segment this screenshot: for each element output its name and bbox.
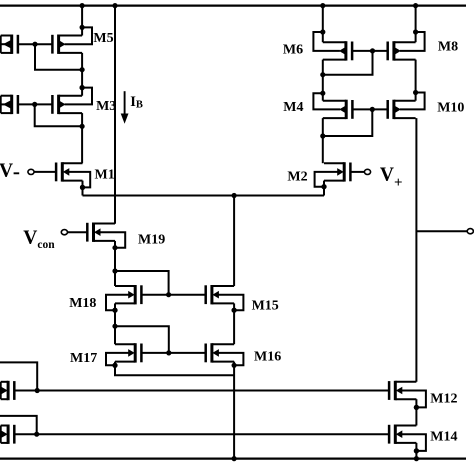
label V- minus <box>14 172 20 174</box>
transistor M1 channel bar <box>61 162 64 181</box>
wire M16 source to ground rail <box>233 362 235 459</box>
wire output tap <box>416 230 468 232</box>
edge transistor P2 source lead <box>1 112 12 114</box>
transistor M3 drain lead <box>59 95 83 97</box>
wire M17 source down-right <box>115 362 234 376</box>
svg-text:M4: M4 <box>283 100 303 115</box>
transistor M6 bulk wire <box>313 32 340 51</box>
svg-text:M15: M15 <box>252 298 279 313</box>
transistor M12 bulk wire <box>401 391 426 408</box>
edge transistor P2 bulk arrow <box>3 100 11 109</box>
wire M15 source to M16 drain <box>233 303 235 344</box>
transistor M10 source lead <box>394 117 416 119</box>
wire M19 source down <box>114 241 116 286</box>
wire M5 gate-drain tie <box>35 44 82 69</box>
node M19 source branch <box>112 268 117 273</box>
wire M4-M10 gates <box>352 108 387 110</box>
transistor M4 bulk-source junction <box>320 91 325 96</box>
wire stub lower-left <box>0 416 37 434</box>
transistor M14 source lead <box>395 442 416 444</box>
transistor M19 bulk-source junction <box>112 245 117 250</box>
transistor M15 drain lead <box>212 285 234 287</box>
transistor M6 bulk-source junction <box>320 29 325 34</box>
wire output column <box>415 118 417 382</box>
transistor M4 bulk arrow <box>339 106 346 114</box>
node mirror gates <box>166 292 171 297</box>
transistor M16 drain lead <box>212 343 234 345</box>
edge transistor N1 source lead <box>1 398 8 400</box>
transistor M3 source lead <box>59 112 83 114</box>
transistor M15 bulk-source junction <box>232 308 237 313</box>
svg-text:+: + <box>394 175 403 191</box>
transistor M2 gate lead <box>350 171 364 173</box>
transistor M19 source lead <box>94 240 116 242</box>
transistor M18 drain lead <box>115 285 135 287</box>
edge transistor N1 gate bar <box>13 381 16 400</box>
transistor M19 bulk wire <box>100 232 126 248</box>
node M14 bulk tie <box>414 448 419 453</box>
transistor M15 source lead <box>212 302 234 304</box>
transistor M5 bulk arrow <box>59 40 66 48</box>
transistor M18 source lead <box>115 302 135 304</box>
transistor M15 bulk arrow <box>212 291 219 299</box>
svg-text:M16: M16 <box>254 350 281 365</box>
transistor M18 gate bar <box>140 285 143 304</box>
junction M14 source - ground <box>414 456 419 461</box>
transistor M15 channel bar <box>210 285 213 304</box>
transistor M17 source lead <box>115 361 135 363</box>
svg-text:M2: M2 <box>287 170 307 185</box>
transistor M8 source lead <box>394 59 416 61</box>
transistor M2 bulk arrow <box>337 168 344 176</box>
svg-text:M1: M1 <box>95 168 115 183</box>
transistor M12 gate bar <box>388 381 391 400</box>
transistor M3 gate bar <box>51 95 54 114</box>
wire M1 source down <box>82 181 84 196</box>
svg-text:IB: IB <box>130 94 143 111</box>
transistor M16 bulk wire <box>218 353 244 365</box>
wire M12 gate row <box>14 390 389 392</box>
transistor M10 bulk-source junction <box>413 90 418 95</box>
node M3 drain / gate tie <box>80 124 85 129</box>
edge transistor P2 drain lead <box>1 95 12 97</box>
svg-text:M6: M6 <box>283 43 303 58</box>
transistor M16 channel bar <box>210 343 213 362</box>
transistor M14 bulk wire <box>401 434 426 451</box>
transistor M19 gate lead <box>67 231 87 233</box>
node M4 drain - M2 drain <box>320 133 325 138</box>
transistor M10 channel bar <box>392 100 395 119</box>
node lower mirror gates <box>166 350 171 355</box>
transistor M17 channel bar <box>134 343 137 362</box>
transistor M8 drain lead <box>394 41 416 43</box>
wire M12 source to M14 drain <box>415 399 417 425</box>
transistor M6 drain lead <box>323 41 346 43</box>
edge transistor P2 channel bar <box>10 95 13 114</box>
transistor M1 drain lead <box>62 162 82 164</box>
wire M2 source down to tail <box>323 181 325 196</box>
input terminal V- <box>28 169 34 174</box>
transistor M17 bulk wire <box>106 353 129 365</box>
wire M5 source to rail <box>81 6 83 36</box>
node cascode gate tie <box>112 324 117 329</box>
wire diff-pair tail <box>83 195 325 197</box>
edge transistor P2 bulk wire <box>1 103 6 105</box>
bottom supply rail <box>0 458 466 460</box>
transistor M10 bulk wire <box>400 93 425 110</box>
transistor M2 source lead <box>324 180 344 182</box>
node M17 bulk tie <box>112 363 117 368</box>
junction rail-M8 <box>413 3 418 8</box>
top supply rail <box>0 4 466 6</box>
node M2 bulk tie <box>321 184 326 189</box>
transistor M16 gate bar <box>204 344 207 363</box>
edge transistor N1 bulk arrow <box>1 386 8 394</box>
wire M15 drain up to tail <box>233 196 235 287</box>
node stub-M14 gate <box>34 432 39 437</box>
transistor M4 channel bar <box>345 100 348 119</box>
wire M6 drain to M4 source <box>322 60 324 101</box>
transistor M5 source lead <box>59 52 83 54</box>
wire M14 gate row <box>14 433 389 435</box>
edge transistor N2 gate bar <box>13 425 16 444</box>
transistor M1 bulk arrow <box>63 168 70 176</box>
transistor M12 channel bar <box>394 381 397 400</box>
transistor M4 source lead <box>323 117 346 119</box>
svg-text:V: V <box>0 161 13 182</box>
transistor M14 drain lead <box>395 425 416 427</box>
transistor M4 gate bar <box>351 100 354 119</box>
edge transistor P1 source lead <box>1 52 12 54</box>
transistor M2 channel bar <box>343 162 346 181</box>
edge transistor N2 drain lead <box>1 425 8 427</box>
edge transistor P1 bulk arrow <box>3 40 11 49</box>
edge transistor P1 gate bar <box>17 35 20 54</box>
transistor M14 bulk arrow <box>396 430 403 438</box>
edge transistor N1 drain lead <box>1 381 8 383</box>
current arrow IB <box>124 91 126 116</box>
transistor M6 source lead <box>323 59 346 61</box>
wire M6 source to rail <box>322 6 324 43</box>
wire M8 source to rail <box>415 6 417 43</box>
wire M3 gate row <box>18 103 52 105</box>
transistor M3 bulk-source junction <box>80 85 85 90</box>
svg-text:M3: M3 <box>96 99 116 114</box>
transistor M17 bulk-source junction <box>112 363 117 368</box>
junction rail-IB <box>112 3 117 8</box>
wire M5 gate row <box>18 43 52 45</box>
transistor M19 drain lead <box>94 223 116 225</box>
transistor M8 bulk wire <box>400 32 425 51</box>
node M3 bulk tie row <box>80 85 85 90</box>
transistor M17 bulk arrow <box>128 349 135 357</box>
transistor M12 bulk arrow <box>396 387 403 395</box>
junction M16 source - ground <box>232 456 237 461</box>
transistor M8 gate bar <box>386 42 389 61</box>
svg-text:M18: M18 <box>69 296 96 311</box>
node M15 bulk tie <box>232 308 237 313</box>
transistor M15 bulk wire <box>218 295 244 311</box>
transistor M16 source lead <box>212 361 234 363</box>
transistor M8 channel bar <box>392 41 395 60</box>
transistor M15 gate bar <box>204 285 207 304</box>
transistor M2 bulk-source junction <box>321 184 326 189</box>
edge transistor P1 drain lead <box>1 35 12 37</box>
transistor M19 gate bar <box>86 223 89 242</box>
transistor M18 channel bar <box>134 285 137 304</box>
wire M8 drain to M10 source <box>415 60 417 101</box>
transistor M14 channel bar <box>394 425 397 444</box>
svg-text:M10: M10 <box>437 101 464 116</box>
wire M3 drain to M1 drain <box>81 113 83 163</box>
transistor M5 bulk wire <box>65 27 92 44</box>
transistor M5 gate bar <box>51 35 54 54</box>
transistor M6 channel bar <box>344 41 347 60</box>
transistor M16 bulk-source junction <box>232 363 237 368</box>
wire M6-M8 gates <box>352 50 388 52</box>
edge transistor N2 edge wire <box>0 426 2 443</box>
transistor M18 bulk arrow <box>128 291 135 299</box>
input terminal V+ <box>364 169 370 174</box>
wire M6 gates-drain tie <box>323 51 373 75</box>
node M18 bulk tie <box>112 308 117 313</box>
edge transistor P2 edge wire <box>0 96 2 113</box>
wire M18-M15 gates <box>141 294 205 296</box>
transistor M10 bulk arrow <box>394 106 401 114</box>
node M3 gate <box>32 102 37 107</box>
wire M3 gate-drain tie <box>35 104 82 126</box>
transistor M14 bulk-source junction <box>414 448 419 453</box>
transistor M2 bulk wire <box>315 172 339 187</box>
edge transistor P1 channel bar <box>10 35 13 54</box>
transistor M3 bulk arrow <box>59 101 66 109</box>
transistor M8 bulk arrow <box>394 47 401 55</box>
junction rail-M5 <box>80 3 85 8</box>
svg-text:M5: M5 <box>93 31 113 46</box>
svg-text:Vcon: Vcon <box>23 228 55 252</box>
transistor M12 drain lead <box>395 381 416 383</box>
svg-text:M17: M17 <box>70 351 97 366</box>
transistor M17 gate bar <box>140 344 143 363</box>
transistor M1 gate lead <box>34 171 56 173</box>
transistor M1 bulk-source junction <box>80 185 85 190</box>
transistor M16 bulk arrow <box>212 349 219 357</box>
edge transistor N2 source lead <box>1 442 8 444</box>
node M5 gate <box>32 42 37 47</box>
output terminal <box>467 229 473 234</box>
transistor M19 bulk arrow <box>94 228 101 236</box>
control terminal Vcon <box>61 230 67 235</box>
node stub-M12 gate <box>35 388 40 393</box>
wire stub upper-left <box>0 362 37 390</box>
edge transistor N2 channel bar <box>7 425 10 444</box>
transistor M18 bulk wire <box>106 295 129 311</box>
wire M5 drain to M3 source <box>81 53 83 96</box>
edge transistor P1 edge wire <box>0 36 2 53</box>
svg-text:M19: M19 <box>138 232 165 247</box>
transistor M5 bulk-source junction <box>80 25 85 30</box>
svg-text:M12: M12 <box>430 392 457 407</box>
node tail to M15 drain <box>232 193 237 198</box>
edge transistor P1 bulk wire <box>1 43 6 45</box>
wire M14 source to ground <box>415 443 417 459</box>
edge transistor N2 bulk wire <box>1 433 2 435</box>
transistor M5 drain lead <box>59 35 83 37</box>
transistor M2 gate bar <box>349 163 352 182</box>
transistor M6 bulk arrow <box>339 47 346 55</box>
node M5 drain / gate tie <box>80 67 85 72</box>
wire bias to mirror gates <box>115 271 169 295</box>
transistor M14 gate bar <box>388 425 391 444</box>
transistor M8 bulk-source junction <box>413 29 418 34</box>
node M1 bulk tie <box>80 185 85 190</box>
current arrowhead IB <box>121 114 129 124</box>
wire M17-M16 gates <box>141 352 205 354</box>
transistor M6 gate bar <box>351 42 354 61</box>
transistor M1 bulk wire <box>68 172 90 188</box>
svg-text:M14: M14 <box>430 430 457 445</box>
transistor M2 drain lead <box>324 162 344 164</box>
transistor M1 gate bar <box>55 163 58 182</box>
wire bias IB from rail <box>114 6 116 224</box>
edge transistor N2 bulk arrow <box>1 430 8 438</box>
node M6 drain <box>320 72 325 77</box>
transistor M10 gate bar <box>386 100 389 119</box>
transistor M3 bulk wire <box>65 88 92 105</box>
transistor M12 bulk-source junction <box>414 405 419 410</box>
node M12 bulk tie <box>414 405 419 410</box>
transistor M4 drain lead <box>323 100 346 102</box>
wire M4 gates-drain tie <box>323 109 373 136</box>
transistor M18 bulk-source junction <box>112 308 117 313</box>
transistor M5 channel bar <box>57 35 60 54</box>
wire cascode gate tie <box>115 326 169 353</box>
edge transistor N1 channel bar <box>7 381 10 400</box>
node M4-M10 gates <box>370 107 375 112</box>
transistor M3 channel bar <box>57 95 60 114</box>
transistor M10 drain lead <box>394 100 416 102</box>
svg-text:V: V <box>380 165 394 186</box>
transistor M12 source lead <box>395 398 416 400</box>
junction rail-M6 <box>320 3 325 8</box>
transistor M17 drain lead <box>115 343 135 345</box>
edge transistor N1 edge wire <box>0 382 2 399</box>
transistor M1 source lead <box>62 180 82 182</box>
transistor M4 bulk wire <box>313 93 340 109</box>
transistor M19 channel bar <box>92 223 95 242</box>
wire M18 source to M17 drain <box>114 303 116 344</box>
node M6-M8 gates <box>370 48 375 53</box>
edge transistor P2 gate bar <box>17 95 20 114</box>
wire M4 drain down <box>322 118 324 163</box>
svg-text:M8: M8 <box>438 39 458 54</box>
edge transistor N1 bulk wire <box>1 390 2 392</box>
